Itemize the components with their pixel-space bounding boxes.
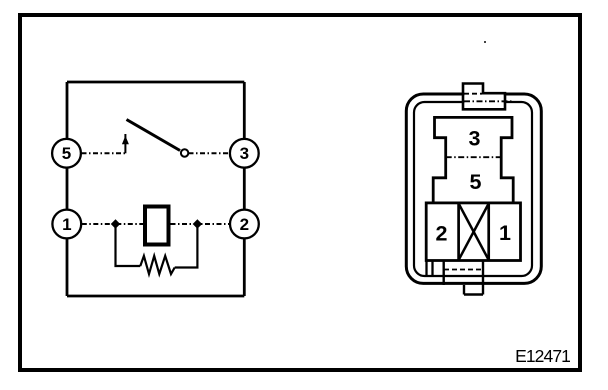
svg-text:5: 5 — [62, 144, 71, 163]
svg-text:3: 3 — [240, 144, 249, 163]
svg-text:E12471: E12471 — [515, 346, 570, 366]
svg-text:2: 2 — [436, 222, 448, 246]
svg-text:5: 5 — [470, 170, 482, 194]
svg-text:3: 3 — [469, 126, 481, 150]
svg-text:2: 2 — [240, 215, 249, 234]
svg-text:1: 1 — [62, 215, 71, 234]
svg-text:1: 1 — [499, 221, 511, 245]
